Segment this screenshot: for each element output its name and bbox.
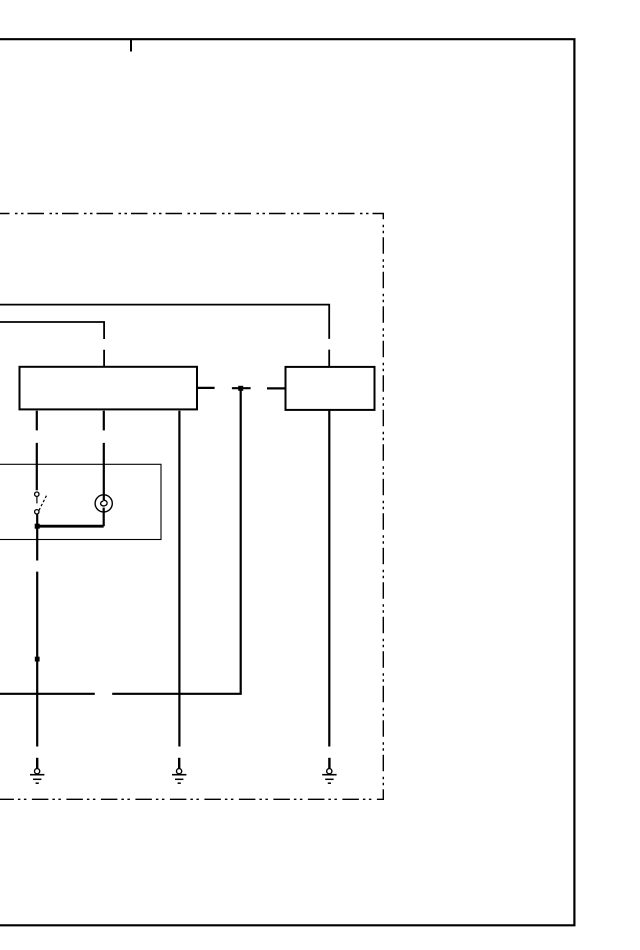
- bulb L1 filament: [101, 500, 108, 506]
- ground G3: [322, 758, 336, 783]
- connector box U1 (left): [20, 367, 198, 410]
- bulb L1 body: [95, 495, 112, 512]
- switch S1 lower contact: [35, 510, 39, 514]
- wire stub into U2 left side: [267, 387, 286, 389]
- dashed enclosure (component boundary): [0, 214, 383, 800]
- wire B (second feed to left box): [0, 322, 104, 367]
- switch S1 blade: [39, 495, 47, 511]
- ground G2: [172, 758, 186, 783]
- connector box U2 (right): [286, 367, 375, 410]
- node J1 (junction dot): [238, 386, 243, 391]
- wire U1 pin 1 (dashed drop to switch): [36, 411, 38, 491]
- wire U1 pin 3 (drop to ground G2): [178, 411, 180, 747]
- wire from node J1 down and left: [112, 388, 250, 694]
- wire to left edge (y=694 feed): [0, 693, 95, 695]
- ground G1: [30, 758, 44, 783]
- wire A (top feed to right box): [0, 305, 329, 367]
- wire U1 pin 2 (dashed drop to bulb): [103, 411, 105, 501]
- sub-assembly thin box: [0, 464, 161, 539]
- switch S1 upper contact: [35, 492, 39, 496]
- wire U2 bottom pin (drop to ground G3): [328, 410, 330, 747]
- switch S1 contact tail: [36, 497, 38, 504]
- wire switch to node: [36, 514, 38, 526]
- wire switch drop to ground G1: [36, 526, 38, 746]
- wire stub from U1 right side: [197, 387, 215, 389]
- node J3 (splice on ground drop): [35, 657, 40, 662]
- wire jumper switch-bulb: [37, 525, 104, 528]
- node J2 (switch junction): [35, 524, 40, 529]
- wire bulb bottom: [103, 508, 105, 527]
